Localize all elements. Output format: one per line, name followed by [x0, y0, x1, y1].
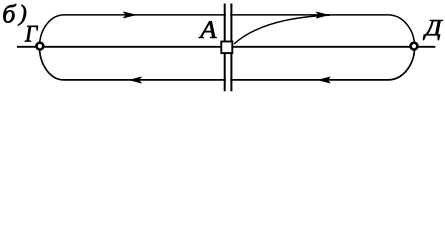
arrow right on top line (left): [124, 12, 136, 18]
wire: right vertical line of double-line: [230, 4, 232, 92]
label б): [3, 4, 16, 23]
node Г terminal circle: [37, 43, 44, 50]
node Д terminal circle: [411, 43, 418, 50]
wire: curve from element A rising to top line: [234, 15, 330, 44]
wire: bottom loop (flat at y=79.9 with elliptical ends): [40, 47, 415, 80]
wire: main horizontal line Г-Д: [17, 46, 435, 48]
arrow right on top line (right, where curve merges): [316, 12, 328, 18]
label Д: [423, 20, 443, 40]
wire: left vertical line of double-line: [224, 4, 226, 92]
arrow left on bottom line (left): [130, 77, 141, 83]
white gap between the double vertical lines: [226, 0, 230, 97]
arrow left on bottom line (right): [319, 77, 330, 83]
wire: top loop (flat at y=14.9 with elliptical ends): [40, 15, 415, 47]
element box at node A: [221, 42, 232, 54]
label Г: [25, 26, 38, 42]
label А: [199, 21, 217, 38]
